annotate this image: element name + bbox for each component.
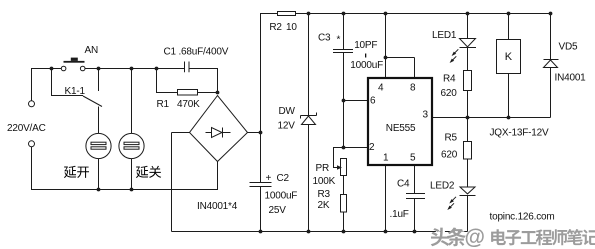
svg-text:5: 5 <box>410 153 416 164</box>
svg-text:R3: R3 <box>318 189 331 200</box>
svg-text:*: * <box>337 35 341 46</box>
svg-text:C1 .68uF/400V: C1 .68uF/400V <box>164 47 229 58</box>
svg-text:1000uF: 1000uF <box>350 60 383 71</box>
svg-text:R2: R2 <box>269 22 282 33</box>
svg-text:IN4001*4: IN4001*4 <box>197 201 238 212</box>
svg-text:DW: DW <box>279 106 296 117</box>
svg-text:@: @ <box>465 226 485 249</box>
svg-text:8: 8 <box>410 83 416 94</box>
svg-text:K: K <box>505 51 513 63</box>
svg-text:K1-1: K1-1 <box>65 86 86 97</box>
svg-text:R5: R5 <box>445 132 458 143</box>
svg-text:.1uF: .1uF <box>390 209 409 220</box>
svg-text:VD5: VD5 <box>559 42 578 53</box>
svg-text:LED2: LED2 <box>430 180 455 191</box>
svg-text:+: + <box>266 173 272 184</box>
svg-text:topinc.126.com: topinc.126.com <box>490 212 555 223</box>
svg-text:3: 3 <box>423 110 429 121</box>
svg-text:10PF: 10PF <box>354 40 377 51</box>
svg-text:R4: R4 <box>443 74 456 85</box>
svg-text:NE555: NE555 <box>386 123 416 134</box>
svg-text:PR: PR <box>316 163 330 174</box>
svg-text:620: 620 <box>441 88 458 99</box>
svg-text:R1: R1 <box>157 99 170 110</box>
svg-text:IN4001: IN4001 <box>555 73 587 84</box>
svg-text:10: 10 <box>286 22 297 33</box>
svg-text:JQX-13F-12V: JQX-13F-12V <box>490 128 549 139</box>
svg-text:470K: 470K <box>177 99 200 110</box>
svg-text:100K: 100K <box>313 176 336 187</box>
svg-text:C2: C2 <box>277 173 290 184</box>
svg-text:12V: 12V <box>278 121 296 132</box>
svg-text:620: 620 <box>441 150 458 161</box>
svg-text:2: 2 <box>369 142 375 153</box>
svg-text:C3: C3 <box>318 33 331 44</box>
svg-text:6: 6 <box>370 96 376 107</box>
svg-text:4: 4 <box>378 83 384 94</box>
svg-text:C4: C4 <box>397 179 410 190</box>
svg-text:25V: 25V <box>269 205 287 216</box>
svg-text:AN: AN <box>85 45 99 56</box>
svg-text:220V/AC: 220V/AC <box>7 123 46 134</box>
svg-text:LED1: LED1 <box>432 30 457 41</box>
svg-text:1000uF: 1000uF <box>265 191 298 202</box>
svg-text:2K: 2K <box>318 200 330 211</box>
svg-text:1: 1 <box>383 153 389 164</box>
